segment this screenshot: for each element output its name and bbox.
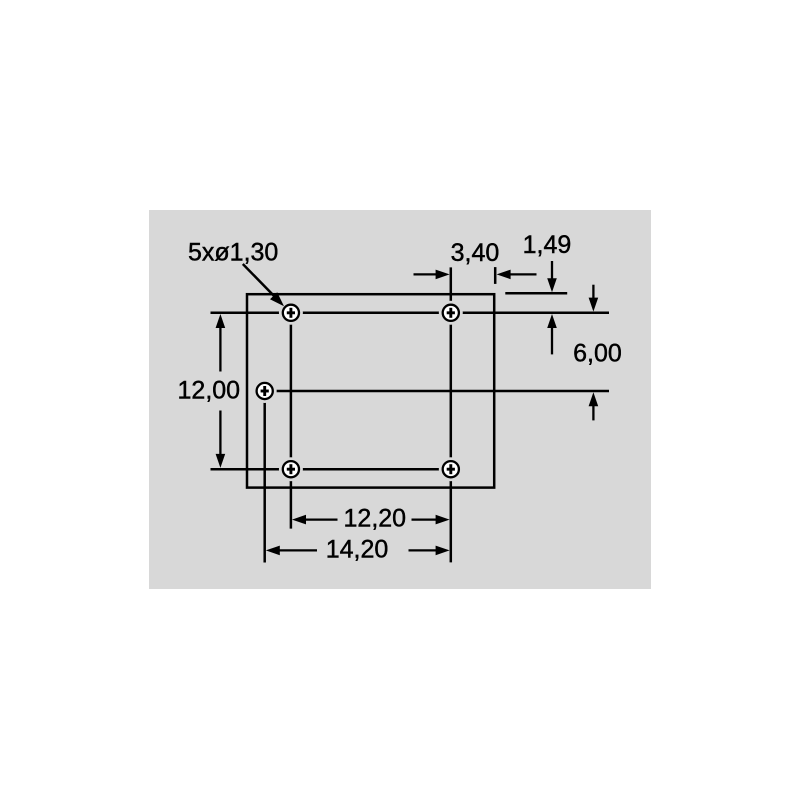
centerline middle hole column [263,391,266,563]
extension line of outline top edge (1,49 reference) [505,292,567,295]
svg-text:12,20: 12,20 [344,504,407,532]
dimension 12,20 [292,504,450,532]
dimension 1,49 [523,231,572,354]
centerline right hole column [450,267,453,562]
svg-text:12,00: 12,00 [178,377,241,405]
svg-text:14,20: 14,20 [326,536,389,564]
hole H3 middle-left [253,379,277,403]
svg-text:1,49: 1,49 [523,231,572,259]
dimension 3,40 [414,239,537,279]
leader arrow to hole H1 [243,264,284,306]
hole H2 top-right [439,301,463,325]
dimension 14,20 [266,536,450,564]
hole H5 bottom-right [439,457,463,481]
svg-text:5xø1,30: 5xø1,30 [188,239,278,267]
drawing panel background [149,210,651,589]
component outline rectangle [247,294,494,487]
extension line of outline right edge [494,267,497,284]
centerline middle hole row [265,390,609,393]
centerline top hole row [211,312,610,315]
svg-text:3,40: 3,40 [451,239,500,267]
svg-text:6,00: 6,00 [573,340,622,368]
hole H1 top-left [279,301,303,325]
dimension 6,00 [573,285,622,421]
centerline bottom hole row [211,468,451,471]
dimension 12,00 [178,314,241,468]
centerline left hole column [290,313,293,529]
hole H4 bottom-left [279,457,303,481]
